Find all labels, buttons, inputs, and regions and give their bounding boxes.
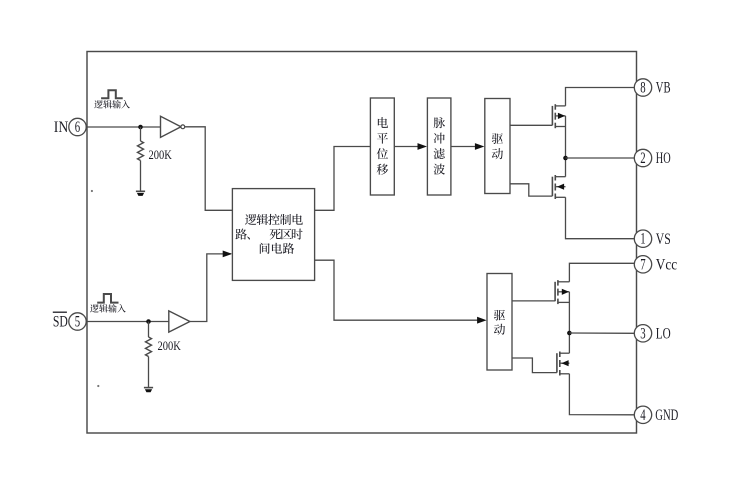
svg-text:VS: VS [656,231,671,248]
label 驱动 (high side) [492,133,503,159]
wire/arrow pulse filter to high drive [451,143,485,150]
svg-text:7: 7 [640,256,646,273]
label 脉冲滤波 [434,117,445,174]
transistor Q1 (high top) [552,104,565,128]
svg-text:GND: GND [655,407,678,424]
wire Q3 drain to Vcc [569,263,634,282]
logic input pulse icon (SD) [97,294,118,303]
label 逻辑控制电路、死区时间电路 [235,214,302,254]
label 驱动 (low side) [494,310,505,335]
wire drive to Q4 gate [512,358,557,373]
wire inverter out to logic block [185,127,233,211]
label 200K (R1) [149,147,173,162]
node HO junction [563,156,568,161]
wire drive to Q1 gate [510,124,552,126]
wire logic block to low drive [315,260,478,320]
node junction IN/R1 [138,125,143,130]
svg-text:5: 5 [75,314,81,331]
resistor R2 200K [146,322,152,388]
svg-text:HO: HO [656,150,671,167]
ground (R1) [136,191,145,196]
pin 1 VS [634,230,670,248]
svg-text:SD: SD [53,314,68,331]
label 电平位移 [377,117,389,175]
wire node to LO pin [569,332,634,334]
pin 7 Vcc [634,256,677,274]
svg-text:Vcc: Vcc [656,257,677,274]
svg-text:4: 4 [640,407,646,424]
arrow into low drive [477,317,487,324]
logic input pulse icon (IN) [101,90,123,98]
svg-text:2: 2 [640,150,645,167]
buffer U2 [169,311,190,332]
speck [91,190,100,387]
wire Q3 source to Q4 drain (LO node) [568,292,570,353]
pin 6 IN [54,118,86,136]
wire IN pin to inverter [86,126,160,128]
pin 2 HO [634,149,670,167]
high-side drive block 驱动 [485,99,510,194]
svg-text:3: 3 [640,325,646,342]
pin 4 GND [634,406,678,424]
inverter U1 [161,116,185,137]
wire logic block to level shifter [315,147,371,211]
wire Q1 source to Q2 drain (HO node) [565,116,567,177]
svg-text:200K: 200K [149,147,173,162]
wire Q2 source to VS [566,197,635,238]
svg-text:200K: 200K [158,338,182,353]
wire node to HO pin [566,157,635,159]
pin 5 SD [53,312,86,331]
IC boundary box [87,52,637,434]
level shift block 电平位移 [370,98,394,195]
svg-text:VB: VB [656,80,671,97]
label 逻辑输入 (IN) [94,100,130,108]
svg-text:1: 1 [640,231,645,248]
wire/arrow level shift to pulse filter [394,143,427,150]
logic control / dead-time block [232,189,314,281]
arrow into logic block (SD) [223,251,233,258]
ground (R2) [144,388,153,393]
svg-text:LO: LO [656,326,671,343]
wire drive to Q3 gate [512,300,555,302]
pin 8 VB [634,79,670,97]
wire drive to Q2 gate [510,184,552,196]
pulse filter block 脉冲滤波 [427,98,451,195]
resistor R1 200K [138,127,144,191]
wire buffer out to logic block [190,254,231,322]
label 200K (R2) [158,338,182,353]
node junction SD/R2 [146,319,151,324]
low-side drive block 驱动 [487,274,512,371]
svg-text:8: 8 [640,80,646,97]
svg-text:IN: IN [54,119,69,136]
node LO junction [567,331,572,336]
transistor Q2 (high bottom) [552,175,565,199]
wire Q1 drain to VB [566,88,635,106]
svg-text:6: 6 [75,119,81,136]
label 逻辑输入 (SD) [90,304,126,312]
transistor Q3 (low top) [555,280,569,304]
wire Q4 source to GND pin [569,374,634,415]
wire SD pin to buffer [86,321,169,323]
pin 3 LO [634,325,670,343]
transistor Q4 (low bottom) [557,352,570,376]
